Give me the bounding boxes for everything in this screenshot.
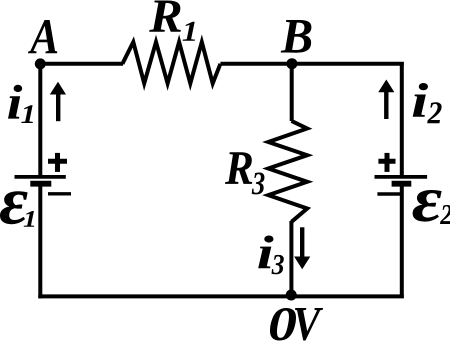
wire left vertical lower	[38, 186, 42, 298]
battery E1 positive plate	[15, 175, 66, 179]
label i1	[8, 85, 33, 123]
label B	[281, 20, 312, 53]
wire left vertical upper	[38, 62, 42, 177]
current arrow i1	[50, 82, 66, 121]
label i2	[413, 83, 442, 123]
label i3	[258, 235, 284, 274]
wire right vertical upper	[400, 62, 404, 177]
node 0V junction	[286, 290, 297, 301]
battery E1 negative plate	[30, 181, 51, 187]
label A	[28, 20, 57, 53]
label R1	[149, 1, 195, 41]
wire top: R1 to top-right corner	[220, 62, 403, 66]
battery E1 minus sign	[48, 192, 71, 195]
current arrow i3	[294, 227, 310, 269]
node A	[35, 58, 46, 69]
label epsilon2	[413, 190, 450, 224]
current arrow i2	[378, 80, 394, 120]
resistor R1	[122, 42, 220, 83]
wire right vertical lower	[400, 184, 404, 298]
wire node B down to R3	[290, 62, 294, 121]
node B	[286, 58, 297, 69]
battery E2 positive plate	[375, 175, 428, 179]
wire top-left: node A to R1	[40, 62, 123, 66]
battery E2 minus sign	[377, 192, 400, 195]
battery E2 negative plate	[392, 181, 412, 187]
wire R3 to bottom node	[289, 221, 293, 296]
label R3	[225, 152, 265, 194]
battery E2 plus sign	[378, 153, 395, 172]
battery E1 plus sign	[48, 153, 67, 172]
resistor R3	[268, 121, 307, 222]
wire bottom	[38, 294, 404, 298]
label epsilon1	[0, 191, 34, 226]
label 0V	[270, 308, 323, 341]
